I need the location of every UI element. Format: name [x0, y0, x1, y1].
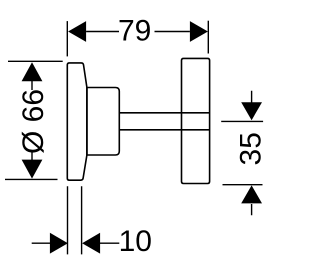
svg-text:79: 79 — [118, 15, 151, 48]
svg-text:10: 10 — [119, 225, 152, 258]
svg-text:Ø 66: Ø 66 — [17, 89, 50, 154]
svg-text:35: 35 — [234, 132, 267, 165]
